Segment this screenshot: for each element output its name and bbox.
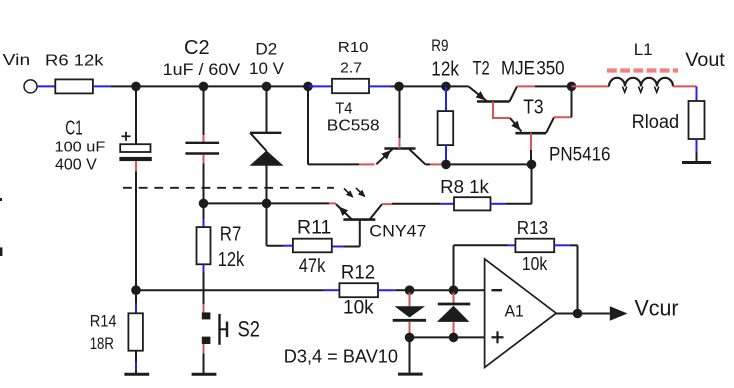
label 1uF / 60V — [163, 60, 241, 79]
transistor T4 emitter diagonal — [376, 149, 392, 164]
switch S2 top contact — [202, 312, 211, 319]
transistor T3 base wire (red) — [530, 133, 532, 150]
svg-text:CNY47: CNY47 — [369, 222, 426, 241]
svg-text:T4: T4 — [335, 101, 352, 118]
svg-text:L1: L1 — [634, 40, 653, 59]
wire R14 top (blue) — [135, 290, 137, 313]
wire R8 right (blue) — [491, 203, 507, 205]
wire S2 ground stem — [203, 353, 205, 373]
svg-text:1uF / 60V: 1uF / 60V — [163, 60, 241, 79]
transistor T2 emitter arrow — [476, 91, 486, 100]
capacitor C2 bottom plate — [185, 152, 219, 154]
label R6 12k — [45, 52, 105, 69]
wire T3 base to node — [530, 150, 532, 164]
left edge mark 1 — [0, 198, 2, 201]
wire R10 right (blue) — [369, 85, 391, 87]
label 10k value of R12 — [343, 298, 374, 319]
label C2 — [184, 37, 210, 59]
ground Rload — [682, 161, 711, 164]
label R13 — [517, 218, 548, 238]
svg-text:T3: T3 — [523, 97, 543, 119]
svg-text:MJE 350: MJE 350 — [501, 59, 565, 80]
resistor R8 — [454, 197, 491, 210]
label R12 — [341, 262, 375, 283]
label L1 — [634, 40, 653, 59]
inductor L1 core dashed bar (salmon) — [607, 68, 678, 72]
svg-text:R14: R14 — [90, 312, 117, 331]
optocoupler CNY47 base wire down — [359, 220, 361, 247]
optocoupler CNY47 collector diagonal — [370, 204, 383, 220]
label T4 — [335, 101, 352, 118]
wire R9 top (blue) — [445, 86, 447, 111]
svg-text:R10: R10 — [338, 39, 369, 56]
label R11 — [297, 218, 331, 239]
node opto rail left junction — [199, 199, 209, 209]
label R9 — [431, 36, 448, 55]
node R9 top junction — [441, 82, 451, 92]
svg-text:R12: R12 — [341, 262, 375, 283]
node C1 junction — [131, 82, 141, 92]
capacitor C2 top plate — [185, 142, 219, 144]
svg-text:47k: 47k — [299, 256, 326, 277]
wire op-amp output — [556, 313, 610, 315]
svg-text:Vcur: Vcur — [635, 296, 679, 321]
op-amp plus sign — [492, 331, 504, 343]
wire C2 upper (red) — [203, 135, 205, 142]
node D3 bottom junction — [405, 333, 415, 343]
transistor T2 bar — [477, 100, 510, 103]
svg-text:2.7: 2.7 — [340, 60, 362, 77]
dashed isolation line — [123, 187, 334, 189]
svg-text:C2: C2 — [184, 37, 210, 59]
label Vin — [3, 52, 31, 69]
svg-text:R11: R11 — [297, 218, 331, 239]
wire L1 to Vout corner (red) — [673, 85, 697, 87]
wire Rload to ground — [696, 152, 698, 162]
diode D3 triangle — [395, 306, 426, 317]
svg-text:R8 1k: R8 1k — [440, 177, 490, 197]
wire node R10-left down — [307, 86, 309, 164]
svg-text:12k: 12k — [218, 249, 245, 271]
transistor T2 emitter diagonal — [469, 86, 488, 101]
node R10-left junction — [303, 82, 313, 92]
svg-text:D3,4 = BAV10: D3,4 = BAV10 — [284, 347, 398, 367]
wire feedback down to output — [577, 245, 579, 313]
wire middle rail — [136, 289, 339, 291]
label Vcur — [635, 296, 679, 321]
svg-text:10k: 10k — [343, 298, 374, 319]
switch S2 bottom contact — [202, 337, 211, 344]
svg-text:A1: A1 — [505, 302, 524, 321]
resistor R11 — [293, 239, 332, 253]
label A1 — [505, 302, 524, 321]
node T4 base top junction — [394, 82, 404, 92]
capacitor C1 plus sign — [122, 132, 131, 141]
arrow Vcur output — [610, 306, 628, 321]
label 12k value of R9 — [431, 58, 459, 80]
node Vin input terminal — [24, 80, 37, 93]
svg-text:R9: R9 — [431, 36, 448, 55]
wire C1 bottom (red) — [135, 161, 137, 171]
wire opto rail to CNY47 (red end) — [267, 202, 337, 204]
transistor T4 collector diagonal — [409, 149, 425, 164]
optocoupler light arrow 2 — [356, 188, 366, 197]
svg-text:Rload: Rload — [632, 112, 680, 133]
wire node D2 down — [266, 86, 268, 132]
op-amp minus sign — [492, 289, 503, 291]
zener D2 bend — [250, 133, 266, 151]
wire R7 bottom — [203, 264, 205, 304]
optocoupler CNY47 emitter arrow — [339, 207, 349, 216]
label MJE 350 — [501, 59, 565, 80]
transistor T4 base wire (red) — [399, 138, 401, 149]
wire node C1 to node C2 — [136, 85, 204, 87]
node D4 top junction — [449, 285, 459, 295]
wire node C2 to node D2 — [204, 85, 267, 87]
diode D4 bottom wire (red) — [453, 322, 455, 335]
wire R10 left (blue) — [308, 85, 332, 87]
wire CNY47 base to R11 — [332, 246, 360, 248]
wire to op-amp plus input — [454, 336, 485, 338]
svg-text:PN5416: PN5416 — [549, 145, 611, 166]
transistor T4 emitter arrow — [381, 150, 391, 159]
wire T4 bottom horizontal — [308, 163, 375, 165]
node R9 bottom junction — [441, 160, 451, 170]
svg-text:T2: T2 — [473, 59, 490, 80]
svg-text:R7: R7 — [220, 224, 242, 246]
transistor T3 bar — [515, 132, 546, 135]
resistor Rload — [689, 101, 705, 139]
svg-text:10 V: 10 V — [249, 59, 285, 78]
optocoupler light arrow 1 — [344, 189, 354, 198]
wire R9 bottom (blue) — [445, 145, 447, 164]
svg-text:400 V: 400 V — [55, 157, 97, 174]
wire CNY47 collector (red) — [382, 203, 392, 205]
node op-amp output junction — [573, 309, 583, 319]
node output collector junction — [567, 82, 577, 92]
label T2 — [473, 59, 490, 80]
wire node C1 down to C1 top — [135, 86, 137, 144]
wire D3 ground stem — [409, 337, 411, 372]
wire R7 top — [203, 203, 205, 227]
label R14 — [90, 312, 117, 331]
svg-text:Vin: Vin — [3, 52, 31, 69]
svg-text:10k: 10k — [522, 254, 548, 274]
wire R9-node to T3-base-node — [446, 163, 532, 165]
wire CNY47 collector to R8 — [392, 203, 454, 205]
zener D2 anode triangle — [250, 151, 284, 166]
zener D2 cathode bar — [250, 132, 281, 134]
wire T2 collector to output node — [535, 85, 572, 87]
optocoupler CNY47 emitter diagonal — [336, 204, 352, 220]
label CNY47 — [369, 222, 426, 241]
wire node D2 to node R10 — [267, 85, 309, 87]
wire T4 collector to node (red) — [425, 163, 441, 165]
wire C1 to node R14 — [135, 172, 137, 291]
wire R8 to T3-base-node corner — [506, 164, 532, 203]
diode D4 cathode bar — [438, 303, 471, 306]
svg-text:12k: 12k — [431, 58, 459, 80]
node R14 top junction — [131, 285, 141, 295]
wire D2 to opto rail — [266, 166, 268, 204]
resistor R12 — [339, 283, 378, 297]
ground R14 — [124, 373, 149, 376]
resistor R7 — [197, 227, 211, 264]
wire R7 to S2 (red) — [203, 304, 205, 312]
switch S2 actuator bar — [218, 314, 220, 345]
wire Vout corner down (blue) — [696, 86, 698, 103]
label D2 — [255, 39, 277, 58]
svg-text:D2: D2 — [255, 39, 277, 58]
wire node to L1 (red) — [572, 85, 610, 87]
optocoupler CNY47 bar — [343, 218, 375, 221]
diode D3 top wire (red) — [409, 293, 411, 307]
wire Rload bottom (blue) — [696, 139, 698, 152]
wire feedback vertical — [453, 245, 455, 290]
wire rail to T2 emitter — [446, 85, 469, 87]
svg-text:R6 12k: R6 12k — [45, 52, 105, 69]
label 400 V — [55, 157, 97, 174]
node D2 junction — [262, 82, 272, 92]
resistor R9 — [438, 111, 454, 145]
wire T3 collector (red) — [554, 116, 572, 118]
label R10 — [338, 39, 369, 56]
svg-text:S2: S2 — [238, 317, 260, 342]
wire C2 lower (red) — [203, 155, 205, 164]
wire node C2 down — [203, 86, 205, 135]
wire S2 to ground (red) — [203, 344, 205, 353]
label Rload — [632, 112, 680, 133]
svg-text:C1: C1 — [65, 118, 83, 140]
label R8 1k — [440, 177, 490, 197]
label 12k value of R7 — [218, 249, 245, 271]
label 18R — [90, 334, 114, 353]
left edge mark 2 — [0, 247, 2, 256]
label 47k — [299, 256, 326, 277]
wire T3 collector up to output node — [571, 86, 573, 117]
label 100 uF — [55, 139, 106, 156]
wire diode bottom rail — [410, 336, 454, 338]
wire R13 right (blue) — [554, 244, 577, 246]
transistor T2 base wire (red) — [493, 102, 510, 119]
diode D4 top wire (red) — [453, 293, 455, 306]
diode D3 cathode bar — [393, 319, 426, 322]
capacitor C1 bottom plate — [119, 157, 151, 161]
label 2.7 value of R10 — [340, 60, 362, 77]
label D3,4 = BAV10 — [284, 347, 398, 367]
label 10 V — [249, 59, 285, 78]
label C1 — [65, 118, 83, 140]
svg-text:BC558: BC558 — [327, 118, 380, 135]
wire R14 bottom — [135, 351, 137, 373]
switch S2 actuator stem — [220, 328, 228, 330]
wire to T4 base node — [391, 85, 399, 87]
wire opto rail left — [204, 202, 267, 204]
node opto rail D2 junction — [262, 199, 272, 209]
inductor L1 coil — [609, 78, 673, 92]
svg-text:100 uF: 100 uF — [55, 139, 106, 156]
ground S2 — [192, 373, 217, 376]
op-amp A1 triangle — [485, 259, 557, 368]
label BC558 — [327, 118, 380, 135]
label Vout — [685, 50, 725, 71]
svg-text:18R: 18R — [90, 334, 114, 353]
transistor T4 bar — [384, 147, 415, 150]
wire to R11 left — [267, 245, 293, 247]
transistor T3 emitter diagonal — [510, 118, 522, 132]
transistor T3 emitter arrow — [511, 121, 520, 131]
node D4 bottom junction — [449, 333, 459, 343]
switch S2 cap bar — [226, 322, 228, 338]
transistor T2 collector diagonal — [510, 86, 518, 101]
label PN5416 — [549, 145, 611, 166]
svg-text:R13: R13 — [517, 218, 548, 238]
wire R6 to node C1 — [93, 85, 136, 87]
resistor R10 — [332, 79, 369, 93]
label S2 — [238, 317, 260, 342]
resistor R13 — [515, 239, 554, 253]
capacitor C1 top plate — [120, 144, 150, 152]
resistor R6 — [55, 79, 93, 93]
diode D3 bottom wire (red) — [409, 322, 411, 335]
wire D3node to D4node — [410, 289, 454, 291]
node T3 base bottom junction — [527, 160, 537, 170]
diode D4 triangle — [437, 306, 470, 322]
wire to op-amp minus input — [454, 289, 485, 291]
wire to R9 node — [399, 85, 446, 87]
wire T4 base up to rail — [399, 86, 401, 138]
label 10k value of R13 — [522, 254, 548, 274]
svg-text:Vout: Vout — [685, 50, 725, 71]
label T3 — [523, 97, 543, 119]
label R7 — [220, 224, 242, 246]
wire T2 collector (red) — [517, 85, 535, 87]
node D3 top junction — [405, 285, 415, 295]
ground diodes — [398, 373, 423, 376]
wire R12 right (blue) — [378, 289, 410, 291]
wire feedback horizontal — [454, 244, 516, 246]
wire node D2col down — [266, 203, 268, 245]
transistor T3 collector diagonal — [546, 117, 554, 133]
wire C2 to opto rail — [203, 164, 205, 204]
resistor R14 — [128, 313, 143, 350]
wire Vin to R6 (blue) — [37, 85, 55, 87]
node C2 junction — [199, 82, 209, 92]
